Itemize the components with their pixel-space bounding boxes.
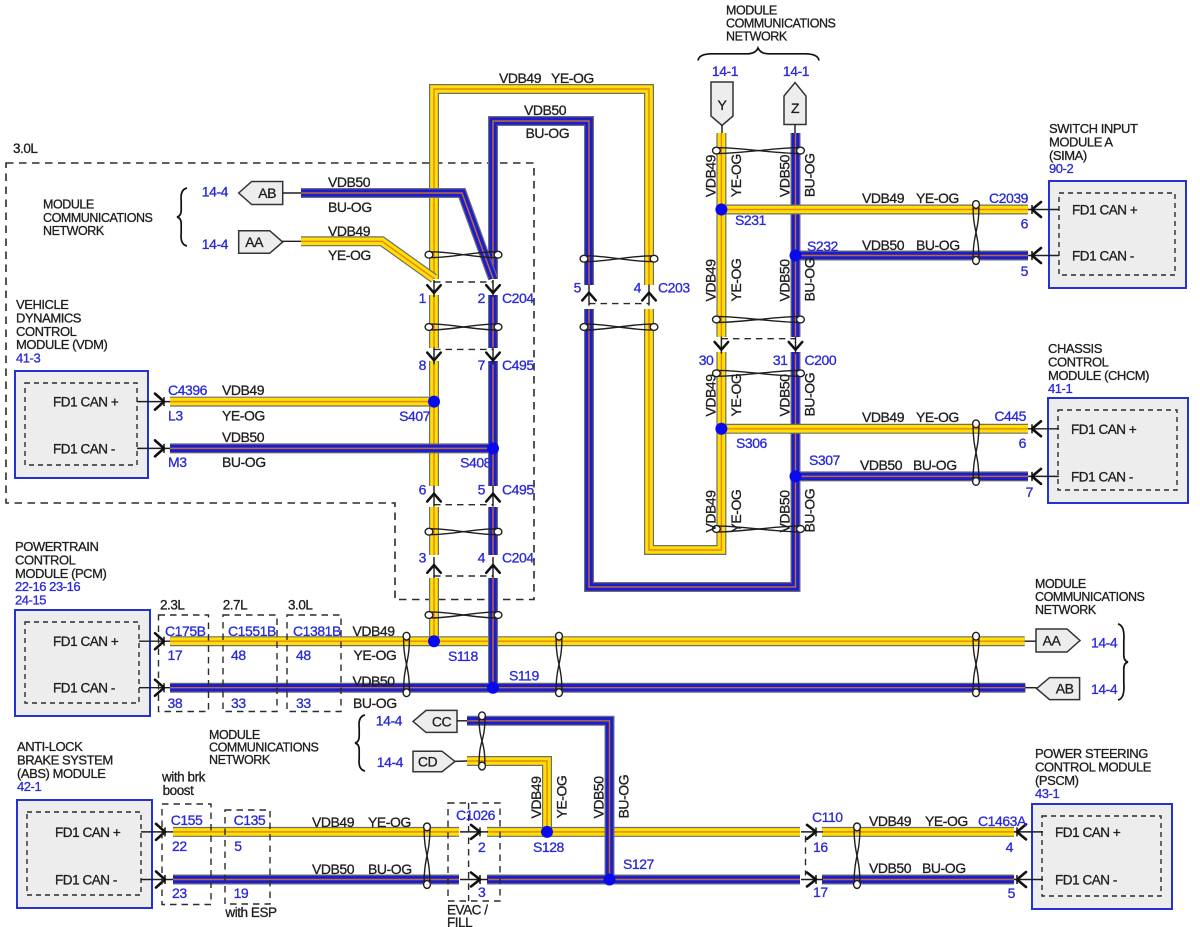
svg-text:C2039: C2039 <box>989 190 1029 206</box>
svg-text:BU-OG: BU-OG <box>802 489 818 533</box>
svg-text:C445: C445 <box>994 408 1026 424</box>
svg-text:C203: C203 <box>658 280 690 296</box>
svg-text:VDB50: VDB50 <box>591 776 607 819</box>
svg-text:C4396: C4396 <box>168 382 208 398</box>
svg-text:FD1 CAN +: FD1 CAN + <box>53 634 119 649</box>
svg-text:6: 6 <box>1021 216 1029 232</box>
svg-text:48: 48 <box>231 647 246 663</box>
svg-text:YE-OG: YE-OG <box>728 154 744 197</box>
svg-text:AA: AA <box>245 234 264 250</box>
svg-text:BU-OG: BU-OG <box>222 454 266 470</box>
svg-text:48: 48 <box>296 647 311 663</box>
svg-text:C175B: C175B <box>165 623 206 639</box>
svg-text:5: 5 <box>234 838 242 854</box>
svg-text:14-4: 14-4 <box>1091 635 1118 651</box>
svg-text:FD1 CAN -: FD1 CAN - <box>53 681 115 696</box>
svg-text:4: 4 <box>1006 839 1014 855</box>
svg-text:33: 33 <box>231 695 246 711</box>
svg-text:C1381B: C1381B <box>293 623 341 639</box>
svg-text:S128: S128 <box>533 839 565 855</box>
svg-text:4: 4 <box>634 280 642 296</box>
svg-text:14-4: 14-4 <box>1091 681 1118 697</box>
svg-text:19: 19 <box>234 885 249 901</box>
svg-text:VDB49: VDB49 <box>353 623 396 639</box>
svg-text:6: 6 <box>1019 435 1027 451</box>
svg-text:17: 17 <box>813 884 828 900</box>
svg-text:C135: C135 <box>234 812 266 828</box>
svg-text:L3: L3 <box>168 408 183 424</box>
svg-text:VDB50: VDB50 <box>869 860 912 876</box>
svg-text:S306: S306 <box>736 435 768 451</box>
svg-text:VDB49: VDB49 <box>869 813 912 829</box>
svg-text:Y: Y <box>718 97 728 113</box>
svg-text:S118: S118 <box>448 648 479 664</box>
svg-text:BU-OG: BU-OG <box>616 775 632 819</box>
svg-text:2.7L: 2.7L <box>223 598 248 613</box>
svg-text:4: 4 <box>478 550 486 566</box>
svg-text:COMMUNICATIONS: COMMUNICATIONS <box>726 17 836 31</box>
svg-text:VDB50: VDB50 <box>777 374 793 417</box>
svg-text:BU-OG: BU-OG <box>328 199 372 215</box>
svg-text:BU-OG: BU-OG <box>802 153 818 197</box>
svg-text:VDB49: VDB49 <box>862 409 905 425</box>
svg-text:YE-OG: YE-OG <box>916 190 959 206</box>
svg-text:FD1 CAN -: FD1 CAN - <box>1055 873 1117 888</box>
svg-text:with ESP: with ESP <box>224 905 277 920</box>
svg-text:S408: S408 <box>460 455 492 471</box>
svg-text:BU-OG: BU-OG <box>368 861 412 877</box>
svg-text:VDB49: VDB49 <box>312 814 355 830</box>
svg-text:14-4: 14-4 <box>202 236 229 252</box>
svg-text:CD: CD <box>418 753 438 769</box>
svg-text:C110: C110 <box>812 809 843 825</box>
svg-text:C1551B: C1551B <box>228 623 276 639</box>
svg-text:COMMUNICATIONS: COMMUNICATIONS <box>1035 590 1145 604</box>
svg-text:42-1: 42-1 <box>17 779 41 794</box>
svg-text:17: 17 <box>168 647 183 663</box>
svg-text:NETWORK: NETWORK <box>43 224 105 238</box>
svg-text:S127: S127 <box>623 856 655 872</box>
svg-text:5: 5 <box>1008 885 1016 901</box>
svg-text:1: 1 <box>419 290 427 306</box>
svg-text:5: 5 <box>478 482 486 498</box>
svg-text:VDB49: VDB49 <box>702 374 718 417</box>
svg-text:VDB49: VDB49 <box>862 190 905 206</box>
svg-text:YE-OG: YE-OG <box>222 408 265 424</box>
svg-text:VDB50: VDB50 <box>777 259 793 302</box>
svg-text:14-4: 14-4 <box>376 712 403 728</box>
svg-text:C1463A: C1463A <box>978 813 1027 829</box>
svg-text:M3: M3 <box>168 454 187 470</box>
svg-text:43-1: 43-1 <box>1035 786 1059 801</box>
svg-text:VDB49: VDB49 <box>702 154 718 197</box>
svg-text:23: 23 <box>172 885 187 901</box>
svg-text:41-1: 41-1 <box>1048 381 1072 396</box>
svg-text:COMMUNICATIONS: COMMUNICATIONS <box>43 211 153 225</box>
svg-text:BU-OG: BU-OG <box>353 695 397 711</box>
svg-text:YE-OG: YE-OG <box>728 374 744 417</box>
svg-text:BU-OG: BU-OG <box>802 373 818 417</box>
svg-text:38: 38 <box>168 695 183 711</box>
svg-text:VDB50: VDB50 <box>353 673 396 689</box>
svg-text:VDB50: VDB50 <box>312 861 355 877</box>
svg-text:C495: C495 <box>502 482 534 498</box>
svg-text:14-1: 14-1 <box>712 63 739 79</box>
svg-text:3.0L: 3.0L <box>13 141 38 156</box>
svg-text:YE-OG: YE-OG <box>368 814 411 830</box>
svg-text:14-4: 14-4 <box>202 184 229 200</box>
svg-text:41-3: 41-3 <box>16 351 40 366</box>
svg-text:5: 5 <box>1021 263 1029 279</box>
svg-text:30: 30 <box>699 352 714 368</box>
svg-text:NETWORK: NETWORK <box>209 753 271 767</box>
svg-text:VDB50: VDB50 <box>777 154 793 197</box>
svg-text:S119: S119 <box>509 668 540 684</box>
svg-text:S407: S407 <box>399 408 431 424</box>
svg-text:VDB50: VDB50 <box>862 237 905 253</box>
svg-text:Z: Z <box>791 100 800 116</box>
svg-text:VDB50: VDB50 <box>222 429 265 445</box>
svg-text:VDB49: VDB49 <box>702 490 718 533</box>
svg-text:VDB49: VDB49 <box>328 223 371 239</box>
svg-text:31: 31 <box>773 352 788 368</box>
svg-text:YE-OG: YE-OG <box>354 647 397 663</box>
svg-text:S231: S231 <box>735 212 767 228</box>
svg-text:14-4: 14-4 <box>377 754 404 770</box>
svg-text:VDB49: VDB49 <box>702 259 718 302</box>
svg-text:FD1 CAN +: FD1 CAN + <box>1055 825 1121 840</box>
svg-text:14-1: 14-1 <box>783 63 810 79</box>
svg-text:33: 33 <box>296 695 311 711</box>
svg-text:C204: C204 <box>502 550 534 566</box>
svg-text:YE-OG: YE-OG <box>328 247 371 263</box>
svg-text:BU-OG: BU-OG <box>913 457 957 473</box>
svg-text:C200: C200 <box>805 352 837 368</box>
svg-text:FD1 CAN +: FD1 CAN + <box>55 825 121 840</box>
svg-text:C204: C204 <box>502 290 534 306</box>
svg-text:YE-OG: YE-OG <box>728 490 744 533</box>
svg-text:NETWORK: NETWORK <box>1035 603 1097 617</box>
svg-text:C495: C495 <box>502 357 534 373</box>
svg-text:AB: AB <box>1056 681 1074 697</box>
svg-text:FD1 CAN +: FD1 CAN + <box>53 395 119 410</box>
svg-text:CC: CC <box>432 713 452 729</box>
svg-text:VDB49: VDB49 <box>499 70 542 86</box>
svg-text:S307: S307 <box>809 452 841 468</box>
svg-text:VDB50: VDB50 <box>860 457 903 473</box>
svg-text:24-15: 24-15 <box>15 593 46 608</box>
svg-text:C155: C155 <box>171 812 203 828</box>
svg-text:AA: AA <box>1043 633 1062 649</box>
svg-text:FILL: FILL <box>447 915 473 927</box>
svg-text:3: 3 <box>478 884 486 900</box>
svg-text:MODULE: MODULE <box>43 198 94 212</box>
svg-text:FD1 CAN +: FD1 CAN + <box>1072 203 1138 218</box>
svg-text:VDB49: VDB49 <box>222 382 265 398</box>
svg-text:2.3L: 2.3L <box>160 598 185 613</box>
svg-text:YE-OG: YE-OG <box>925 813 968 829</box>
svg-text:6: 6 <box>419 482 427 498</box>
svg-text:S232: S232 <box>807 238 839 254</box>
svg-text:3: 3 <box>419 550 427 566</box>
svg-text:C1026: C1026 <box>456 807 496 823</box>
svg-text:2: 2 <box>478 290 486 306</box>
svg-text:8: 8 <box>419 357 427 373</box>
svg-text:5: 5 <box>574 280 582 296</box>
svg-text:2: 2 <box>478 839 486 855</box>
svg-text:90-2: 90-2 <box>1049 161 1073 176</box>
svg-text:7: 7 <box>1026 484 1034 500</box>
svg-text:boost: boost <box>163 783 194 798</box>
svg-text:FD1 CAN -: FD1 CAN - <box>1072 249 1134 264</box>
svg-text:22: 22 <box>172 838 187 854</box>
svg-text:BU-OG: BU-OG <box>526 125 570 141</box>
svg-text:FD1 CAN -: FD1 CAN - <box>1071 469 1133 484</box>
svg-text:VDB50: VDB50 <box>777 490 793 533</box>
svg-text:16: 16 <box>813 839 828 855</box>
svg-text:BU-OG: BU-OG <box>916 237 960 253</box>
svg-text:3.0L: 3.0L <box>288 598 313 613</box>
svg-text:YE-OG: YE-OG <box>554 776 570 819</box>
svg-text:YE-OG: YE-OG <box>551 70 594 86</box>
svg-text:BU-OG: BU-OG <box>802 258 818 302</box>
svg-text:MODULE: MODULE <box>726 4 777 18</box>
svg-text:AB: AB <box>258 185 276 201</box>
svg-text:VDB50: VDB50 <box>328 174 371 190</box>
svg-text:7: 7 <box>478 357 486 373</box>
svg-text:BU-OG: BU-OG <box>922 860 966 876</box>
svg-text:YE-OG: YE-OG <box>916 409 959 425</box>
svg-text:MODULE: MODULE <box>1035 577 1086 591</box>
svg-text:FD1 CAN -: FD1 CAN - <box>55 873 117 888</box>
svg-text:VDB50: VDB50 <box>524 102 567 118</box>
svg-text:NETWORK: NETWORK <box>726 30 788 44</box>
svg-text:FD1 CAN +: FD1 CAN + <box>1071 422 1137 437</box>
svg-text:FD1 CAN -: FD1 CAN - <box>53 441 115 456</box>
svg-text:VDB49: VDB49 <box>528 776 544 819</box>
svg-text:YE-OG: YE-OG <box>728 259 744 302</box>
